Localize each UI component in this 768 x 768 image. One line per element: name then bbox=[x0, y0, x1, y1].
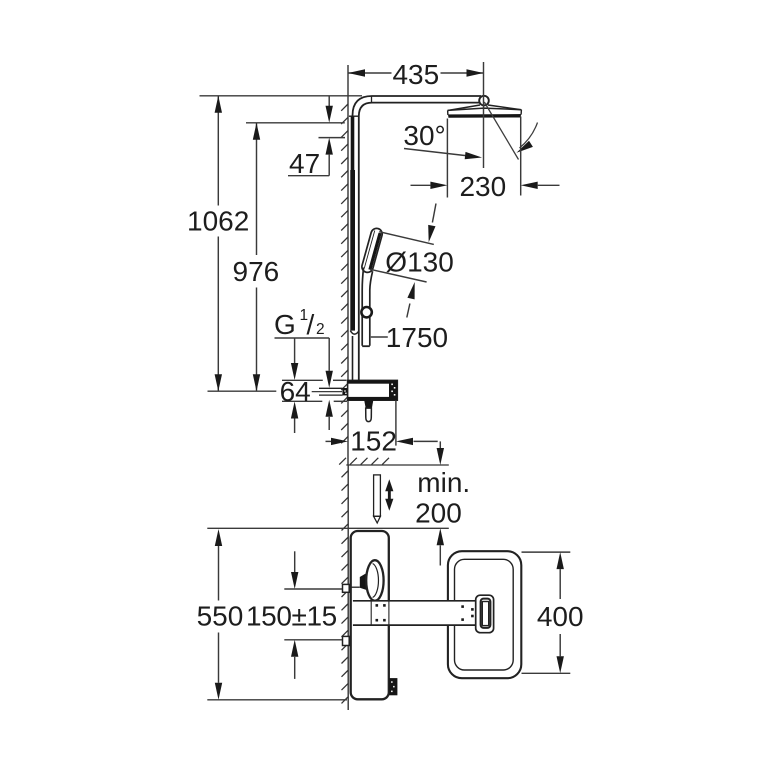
label 1750 bbox=[371, 322, 448, 353]
plug position symbol bbox=[374, 475, 381, 523]
shelf valve body side view bbox=[348, 380, 398, 400]
shower rail bbox=[349, 116, 359, 334]
outlet nozzle bbox=[364, 400, 373, 421]
control dial bbox=[350, 560, 384, 601]
svg-text:400: 400 bbox=[537, 601, 584, 632]
angle 30 deg bbox=[403, 102, 537, 160]
up-down adjust arrow bbox=[385, 479, 393, 511]
shower pipe bbox=[353, 96, 482, 380]
label G 1/2 bbox=[274, 307, 329, 340]
svg-text:152: 152 bbox=[350, 425, 397, 456]
dimension 64 bbox=[280, 338, 347, 433]
hand shower plan view bbox=[448, 551, 521, 678]
bottom outlet fitting bbox=[389, 678, 397, 695]
svg-text:/: / bbox=[307, 309, 315, 340]
svg-text:47: 47 bbox=[289, 148, 320, 179]
svg-text:30°: 30° bbox=[403, 120, 445, 151]
svg-text:200: 200 bbox=[415, 498, 462, 529]
dimension 230 bbox=[411, 117, 560, 203]
bottom extension line of 1062/976 bbox=[208, 390, 277, 392]
svg-text:Ø130: Ø130 bbox=[385, 247, 454, 278]
swivel ball joint bbox=[479, 96, 489, 106]
bottom wall bbox=[346, 465, 449, 710]
dimension dia 130 bbox=[370, 204, 454, 318]
wall bbox=[347, 65, 349, 465]
supply fitting upper bbox=[343, 584, 350, 592]
extension line 528 bbox=[207, 527, 448, 529]
dimension 152 bbox=[326, 400, 438, 456]
svg-text:min.: min. bbox=[417, 467, 470, 498]
extension line 700 bbox=[207, 699, 347, 701]
swivel arm plan view bbox=[353, 601, 477, 625]
dimension 550 bbox=[197, 529, 244, 700]
G 1/2 leader arrows bbox=[326, 338, 333, 430]
dimension 47 bbox=[288, 96, 345, 179]
center extension line bbox=[483, 62, 485, 168]
bottom wall hatching bbox=[339, 458, 389, 704]
svg-text:976: 976 bbox=[233, 256, 280, 287]
handle holder plan view bbox=[476, 595, 494, 633]
svg-text:550: 550 bbox=[197, 601, 244, 632]
head shower bbox=[448, 105, 522, 118]
dimension 976 bbox=[233, 123, 345, 391]
svg-text:150±15: 150±15 bbox=[246, 601, 337, 632]
svg-text:1062: 1062 bbox=[187, 205, 249, 236]
supply pipe bbox=[312, 388, 348, 395]
dimension 400 bbox=[522, 552, 584, 673]
svg-text:2: 2 bbox=[316, 321, 325, 338]
svg-text:G: G bbox=[274, 309, 296, 340]
holder ring bbox=[361, 307, 371, 317]
dimension 150+-15 bbox=[246, 551, 344, 679]
svg-text:435: 435 bbox=[392, 59, 439, 90]
svg-text:64: 64 bbox=[280, 376, 311, 407]
valve body plan view bbox=[351, 531, 389, 699]
svg-text:230: 230 bbox=[459, 171, 506, 202]
hand shower head bbox=[361, 227, 384, 274]
wall hatching upper bbox=[341, 104, 348, 443]
svg-text:1750: 1750 bbox=[386, 322, 448, 353]
hand shower handle bbox=[362, 268, 372, 347]
dimension 435 bbox=[348, 59, 484, 90]
dimension 1062 bbox=[187, 96, 362, 391]
min 200 dimension bbox=[415, 441, 470, 565]
supply fitting lower bbox=[343, 636, 350, 645]
